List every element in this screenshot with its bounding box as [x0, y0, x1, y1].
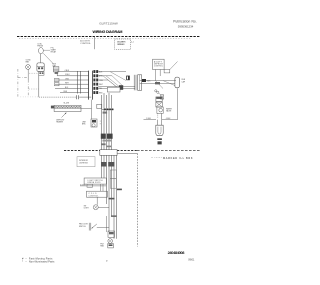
- wire capacitor to strip: [79, 96, 91, 98]
- cabinet boundary second dashed line: [19, 37, 191, 39]
- overload protector: [37, 63, 44, 72]
- wire from boundary down (auger): [94, 36, 96, 49]
- wire row with labels: [144, 119, 157, 121]
- control box: [87, 191, 108, 197]
- svg-text:LIGHTING: LIGHTING: [79, 163, 88, 165]
- interior light bulb circle: [93, 205, 98, 210]
- svg-text:4-1: 4-1: [131, 42, 134, 44]
- wire bundle lower: [102, 155, 117, 239]
- svg-text:GLRT215AW: GLRT215AW: [99, 21, 118, 25]
- bundle tie marks: [117, 189, 122, 191]
- wire ADC bottom right: [159, 70, 161, 77]
- dotted wire bottom left: [21, 96, 39, 98]
- svg-text:Non-Illuminated Parts: Non-Illuminated Parts: [29, 261, 55, 264]
- svg-text:HEATER: HEATER: [56, 121, 63, 124]
- svg-text:*: *: [22, 261, 23, 264]
- connector blocks right of strip: [93, 70, 98, 94]
- svg-text:SL-498: SL-498: [64, 103, 70, 105]
- cabinet dashed vertical: [137, 154, 139, 247]
- freezer light label blob: [158, 141, 162, 144]
- wire condenser fan down: [27, 69, 29, 80]
- dash-dot vertical wire left: [17, 69, 19, 97]
- bundle junction boxes: [110, 170, 116, 179]
- wire switch to bundle: [97, 227, 109, 229]
- wire heater right to bundle: [81, 107, 92, 109]
- dark connector blob: [119, 85, 123, 90]
- compressor motor circle: [39, 48, 44, 54]
- ADC control box: [153, 59, 165, 69]
- wire row 5: [55, 87, 89, 89]
- wire row 4: [55, 83, 89, 85]
- liner dashed line middle segment: [117, 150, 137, 152]
- svg-text:CONTROL: CONTROL: [154, 66, 163, 68]
- small box with x: [161, 95, 164, 99]
- dashes to embedded overload: [29, 72, 39, 74]
- cabinet boundary dashed line top: [17, 36, 200, 38]
- freezer fan motor: [108, 239, 113, 244]
- small circles below ADC: [155, 90, 157, 92]
- bulb base: [157, 138, 162, 140]
- light switch box: [84, 178, 106, 184]
- svg-text:CONTROL: CONTROL: [80, 43, 91, 45]
- wire to interior light: [96, 197, 98, 205]
- svg-text:FRESH FOOD: FRESH FOOD: [88, 182, 102, 184]
- fan bottom bracket: [108, 244, 114, 248]
- defrost timer box: [107, 87, 120, 92]
- svg-text:PRESS: PRESS: [37, 45, 44, 47]
- dispenser dashed box: [115, 39, 131, 49]
- freezer fan verticals: [105, 216, 107, 232]
- door switch symbol: [88, 223, 90, 231]
- diagonal wires near cap: [163, 81, 175, 86]
- dash-dot horizontal wire: [18, 77, 28, 79]
- icemaker box 2: [156, 102, 162, 107]
- inline connector pair: [77, 71, 79, 94]
- wire down to defrost line: [38, 75, 40, 97]
- svg-text:DISPENSER: DISPENSER: [117, 44, 125, 46]
- diagonal wires: [103, 76, 117, 87]
- terminal strip vertical pair: [88, 71, 90, 100]
- wire row with label: [80, 185, 106, 187]
- wire connector blob: [142, 79, 146, 82]
- bundle labels blob 2: [101, 162, 107, 167]
- junction box on liner: [100, 150, 117, 156]
- bundle junction row: [102, 108, 114, 110]
- wire row 6 short: [60, 92, 89, 94]
- condenser fan motor circle: [26, 65, 31, 70]
- svg-text:WIRING DIAGRAM: WIRING DIAGRAM: [93, 30, 123, 34]
- svg-text:Publication No.: Publication No.: [173, 20, 197, 24]
- svg-text:3 ORG: 3 ORG: [80, 184, 86, 186]
- wires right to timer: [98, 71, 126, 73]
- svg-text:5995361234: 5995361234: [178, 24, 194, 28]
- arrow to PTC relay label: [43, 49, 50, 51]
- wire up right side: [177, 89, 179, 120]
- small box below ADC: [164, 70, 170, 73]
- heater left terminal: [51, 106, 54, 109]
- water valve bracket with circle: [157, 107, 163, 113]
- stubs: [100, 184, 102, 191]
- capacitor marks on wire: [76, 95, 78, 99]
- svg-text:WHT: WHT: [65, 83, 69, 85]
- svg-text:LIGHT: LIGHT: [84, 208, 89, 210]
- svg-text:VALVE: VALVE: [166, 110, 172, 113]
- wire cap to row1: [56, 74, 58, 76]
- svg-text:9: 9: [100, 123, 101, 125]
- dashed wire down: [157, 113, 159, 118]
- dash-dot vertical wire (cond fan continues): [27, 80, 29, 97]
- liner dashed line left segment: [64, 150, 100, 152]
- wire bundle upper: [102, 93, 112, 150]
- liner dashed line right segment: [137, 150, 200, 152]
- tall connector: [133, 75, 135, 91]
- wire row 2: [57, 75, 88, 77]
- dotted wire to strip: [39, 96, 77, 98]
- wire compressor to overload: [39, 54, 41, 63]
- svg-text:240484008: 240484008: [168, 250, 186, 255]
- interior lighting label box: [77, 157, 95, 167]
- row3 left connector: [54, 83, 59, 86]
- wire from light to bundle: [98, 206, 109, 208]
- svg-text:WHT: WHT: [99, 84, 103, 86]
- svg-text:INTERIOR: INTERIOR: [79, 160, 88, 162]
- run capacitor (right): [175, 77, 180, 88]
- diagonal to solenoid: [159, 93, 161, 95]
- wires to run capacitor: [140, 80, 176, 82]
- small relay box: [91, 119, 97, 127]
- svg-text:*: *: [152, 156, 153, 160]
- icemaker box 1: [156, 97, 162, 102]
- defrost heater element: [54, 105, 81, 111]
- svg-text:SWITCH: SWITCH: [79, 226, 86, 228]
- wire ADC down: [155, 70, 157, 81]
- svg-text:ORG: ORG: [65, 78, 70, 80]
- run capacitor body: [53, 67, 59, 72]
- bundle labels blob: [101, 134, 106, 139]
- diagonal wire up right: [170, 62, 178, 70]
- svg-text:CONTROL: CONTROL: [89, 195, 99, 197]
- svg-text:RELAY: RELAY: [51, 51, 57, 54]
- wire row 3: [55, 79, 89, 81]
- freezer fan box: [108, 231, 115, 237]
- wire row 1: [57, 71, 88, 73]
- small component: [126, 76, 130, 81]
- embedded overload rect: [39, 71, 44, 75]
- connector labels: [99, 71, 104, 94]
- freezer light wires: [156, 120, 158, 126]
- arrow to heater: [62, 113, 67, 118]
- freezer light bulb: [156, 125, 163, 136]
- svg-text:MARKED ILL BRK: MARKED ILL BRK: [163, 157, 193, 160]
- wire diagonal compressor to run capacitor: [43, 53, 53, 63]
- row2 left connector: [54, 78, 59, 81]
- heater junction box: [97, 104, 102, 108]
- wire junction box to dashed vertical: [117, 153, 137, 155]
- svg-text:09/01: 09/01: [188, 258, 195, 261]
- dashed wire y89: [29, 88, 39, 90]
